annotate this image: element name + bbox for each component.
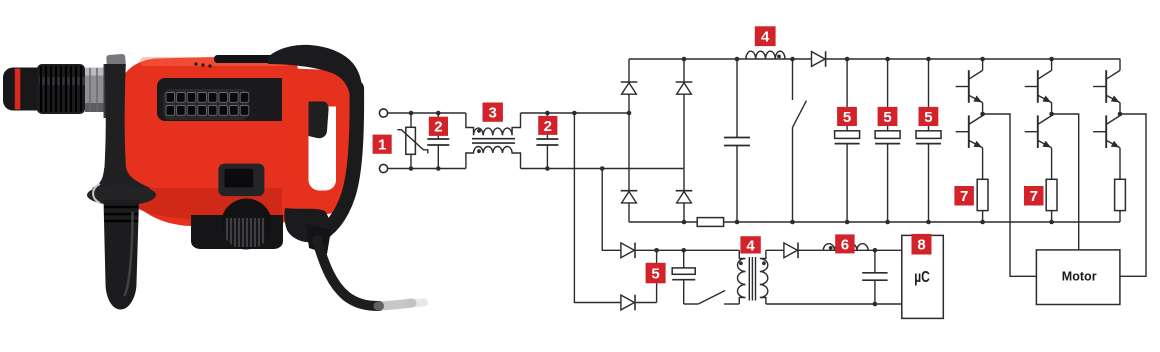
- drill front gear housing (red): [117, 120, 198, 216]
- wire: secondary diode to inductor: [798, 249, 823, 251]
- wire: DC-link cap branch: [736, 59, 738, 138]
- node: aux feeder tap on N rail: [600, 166, 605, 171]
- transistor Q5 (high side): [1105, 70, 1107, 103]
- svg-text:2: 2: [544, 118, 552, 135]
- node: C5 bottom: [885, 220, 890, 225]
- diode D7 (aux lower): [621, 295, 635, 310]
- capacitor C7 (aux bulk): [672, 268, 695, 274]
- svg-text:2: 2: [434, 119, 442, 136]
- drill chuck red ring: [15, 69, 20, 110]
- resistor R2 (emitter shunt): [977, 179, 988, 210]
- node: aux cap top junction: [681, 248, 686, 253]
- wire: bus cap C5 branch: [887, 59, 889, 131]
- wire: aux lower diode output: [636, 302, 657, 304]
- drill side handle flare: [92, 168, 152, 189]
- wire: negative DC rail left of shunt: [629, 221, 697, 223]
- capacitor C2 (label 2): [536, 138, 558, 140]
- wire: phase 2 to motor: [1052, 114, 1079, 250]
- label 1: [373, 135, 392, 154]
- wire: aux cap branch: [683, 250, 685, 268]
- transistor Q6 (low side): [1105, 115, 1107, 148]
- wire: aux diode join riser: [656, 250, 658, 302]
- node: bridge left AC input: [627, 111, 632, 116]
- transistor Q4 (low side): [1037, 115, 1039, 148]
- wire: leg 2 mid link: [1051, 103, 1053, 116]
- drill chuck steel ring: [85, 68, 104, 113]
- label 2 (C1): [429, 117, 448, 136]
- wire: output cap branch: [874, 250, 876, 272]
- wire: leg 2 resistor to rail: [1051, 211, 1053, 222]
- wire: top AC rail right segment: [521, 112, 630, 114]
- wire: aux top rail to transformer: [636, 249, 739, 251]
- choke L1 core: [472, 138, 515, 140]
- wire: leg 3 emitter to resistor: [1119, 148, 1121, 180]
- photo: rotary hammer drill: [3, 45, 424, 310]
- node: C6 bottom: [926, 220, 931, 225]
- diode D4 (bridge lower-right): [676, 190, 693, 192]
- drill mid black band: [157, 78, 298, 121]
- label 5 (C6): [919, 107, 939, 126]
- node: C1 bottom: [436, 166, 441, 171]
- node: leg 1 rail junction: [980, 220, 985, 225]
- wire: leg 1 emitter to resistor: [982, 148, 984, 180]
- capacitor C1 (label 2): [427, 138, 449, 140]
- node: bridge right branch bottom: [682, 220, 687, 225]
- svg-text:4: 4: [746, 237, 755, 254]
- wire: bridge left branch: [628, 59, 630, 222]
- svg-text:7: 7: [1030, 188, 1038, 205]
- node: leg 1 rail junction: [980, 57, 985, 62]
- node: C5 top: [885, 57, 890, 62]
- microcontroller U1 (box, label 8): [902, 235, 944, 318]
- motor M (box): [1036, 250, 1120, 305]
- node: PFC switch top junction: [790, 57, 795, 62]
- node: aux feeder tap on L rail: [572, 111, 577, 116]
- switch S1 (PFC): [792, 59, 794, 100]
- node: C3 top: [735, 57, 740, 62]
- capacitor C6 (label 5): [916, 131, 941, 139]
- node: bridge right branch top: [682, 57, 687, 62]
- label 5 (aux cap): [646, 263, 666, 284]
- drill chuck smooth nose: [3, 68, 39, 111]
- wire: secondary top to diode: [766, 249, 784, 251]
- node: C1 top: [436, 111, 441, 116]
- label 5 (C5): [878, 107, 898, 126]
- diode D3 (bridge lower-left): [621, 190, 638, 192]
- drill cord boot: [306, 224, 331, 254]
- node: varistor top junction: [409, 111, 414, 116]
- drill side handle clamp: [87, 185, 156, 206]
- wire: aux bottom rail: [766, 303, 902, 305]
- resistor R3 (emitter shunt): [1046, 179, 1057, 210]
- svg-text:7: 7: [960, 188, 968, 205]
- wire: top AC rail left segment: [388, 112, 466, 114]
- drill side handle rod: [104, 64, 126, 172]
- svg-text:3: 3: [489, 105, 497, 122]
- label 7 (R2): [954, 186, 974, 206]
- node: phase 1 junction: [980, 112, 985, 117]
- wire: leg 2 emitter to resistor: [1051, 148, 1053, 180]
- svg-text:5: 5: [883, 109, 891, 126]
- wire: leg 3 mid link: [1119, 103, 1121, 116]
- wire: aux feeder from L rail: [574, 113, 621, 303]
- svg-text:8: 8: [917, 237, 925, 254]
- varistor RV1 (label 1): [406, 127, 416, 154]
- inductor L3 (label 6): [823, 249, 902, 251]
- drill power cord fading tail: [378, 303, 412, 306]
- wire: bottom AC rail left segment: [388, 168, 466, 170]
- drill rear handle red frame: [282, 68, 351, 215]
- wire: bottom AC rail right segment: [521, 168, 685, 170]
- wire: negative DC rail right of shunt: [724, 221, 1120, 223]
- drill mode selector panel: [218, 164, 264, 197]
- wire: leg 1 mid link: [982, 103, 984, 116]
- transformer T1 secondary: [760, 250, 768, 304]
- capacitor C3 (DC link): [724, 137, 750, 139]
- resistor R4 (emitter shunt): [1115, 179, 1126, 210]
- label 5 (C4): [837, 107, 857, 126]
- drill rear handle top arm: [268, 45, 363, 102]
- node: C4 top: [845, 57, 850, 62]
- wire: leg 1 resistor to rail: [982, 211, 984, 222]
- node: leg 2 rail junction: [1049, 220, 1054, 225]
- drill top strip: [214, 55, 284, 63]
- wire: positive DC rail: [629, 58, 1120, 60]
- node: varistor bottom junction: [409, 166, 414, 171]
- terminal: mains input N: [379, 164, 387, 172]
- transformer T1 core: [748, 257, 750, 301]
- node: C2 bottom: [545, 166, 550, 171]
- wire: leg 2 collector drop: [1051, 59, 1053, 70]
- diode D6 (aux upper): [621, 243, 635, 258]
- node: shunt right junction: [735, 220, 740, 225]
- svg-text:6: 6: [841, 236, 849, 253]
- drill motor base: [191, 215, 283, 249]
- label 4 (transformer): [740, 236, 760, 253]
- drill side handle knob: [106, 54, 126, 69]
- wire: varistor branch: [410, 113, 412, 169]
- node: PFC switch bottom junction: [790, 220, 795, 225]
- drill chuck ribbed cylinder: [37, 64, 85, 114]
- node: phase 2 junction: [1049, 112, 1054, 117]
- wire: bridge right branch: [683, 59, 685, 222]
- label 7 (R3): [1024, 186, 1044, 206]
- drill top vent dots: [194, 62, 197, 65]
- node: aux diode join: [654, 248, 659, 253]
- drill trigger: [309, 102, 329, 139]
- drill body shading: [140, 57, 290, 66]
- choke L1 top winding (label 3): [466, 113, 521, 135]
- transformer T1 primary (label 4): [738, 250, 746, 304]
- drill power cord: [317, 240, 379, 306]
- drill rear handle bottom: [284, 208, 329, 242]
- wire: leg 3 collector drop: [1119, 59, 1121, 70]
- transistor Q1 (high side): [968, 70, 970, 103]
- svg-text:1: 1: [378, 137, 386, 154]
- transistor Q3 (high side): [1037, 70, 1039, 103]
- svg-text:4: 4: [761, 29, 770, 46]
- wire: leg 1 collector drop: [982, 59, 984, 70]
- node: output cap top: [873, 248, 878, 253]
- drill side handle grip: [104, 200, 140, 310]
- node: C6 top: [926, 57, 931, 62]
- node: C4 bottom: [845, 220, 850, 225]
- wire: aux feeder from N rail: [602, 169, 621, 251]
- switch S2 (flyback): [698, 291, 725, 305]
- drill body (red): [117, 56, 298, 227]
- diode D2 (bridge upper-right): [676, 81, 693, 83]
- diode D5 (boost): [812, 52, 826, 67]
- label 3: [483, 103, 503, 122]
- svg-text:Motor: Motor: [1062, 268, 1097, 283]
- drill rear handle outer grip: [316, 88, 357, 237]
- capacitor C4 (label 5): [835, 131, 860, 139]
- svg-text:µC: µC: [914, 269, 930, 286]
- terminal: mains input L: [379, 109, 387, 117]
- wire: phase 1 to motor: [983, 114, 1037, 276]
- node: output cap bottom: [873, 302, 878, 307]
- svg-text:5: 5: [651, 265, 659, 282]
- drill chuck collar: [104, 64, 116, 118]
- inductor L2 PFC (label 4): [746, 51, 785, 59]
- label 6: [835, 234, 854, 253]
- choke L1 bottom winding: [466, 147, 521, 169]
- svg-text:5: 5: [843, 109, 851, 126]
- capacitor C8 (output filter): [862, 272, 887, 274]
- node: phase 3 junction: [1118, 112, 1123, 117]
- node: C2 top: [545, 111, 550, 116]
- wire: X-cap C1 branch: [437, 113, 439, 139]
- node: leg 2 rail junction: [1049, 57, 1054, 62]
- wire: phase 3 to motor: [1120, 114, 1146, 276]
- svg-text:5: 5: [924, 109, 932, 126]
- diode D8 (secondary): [784, 243, 798, 258]
- wire: X-cap C2 branch: [546, 113, 548, 139]
- transistor Q2 (low side): [968, 115, 970, 148]
- wire: bus cap C6 branch: [928, 59, 930, 131]
- drill vent grill: [164, 89, 249, 120]
- label 8: [912, 234, 932, 255]
- wire: leg 3 resistor to rail: [1119, 211, 1121, 222]
- wire: bus cap C4 branch: [846, 59, 848, 131]
- label 4 (PFC inductor): [755, 26, 776, 46]
- label 2 (C2): [538, 116, 557, 135]
- resistor R1 (shunt): [697, 218, 723, 227]
- diode D1 (bridge upper-left): [621, 81, 638, 83]
- capacitor C5 (label 5): [875, 131, 900, 139]
